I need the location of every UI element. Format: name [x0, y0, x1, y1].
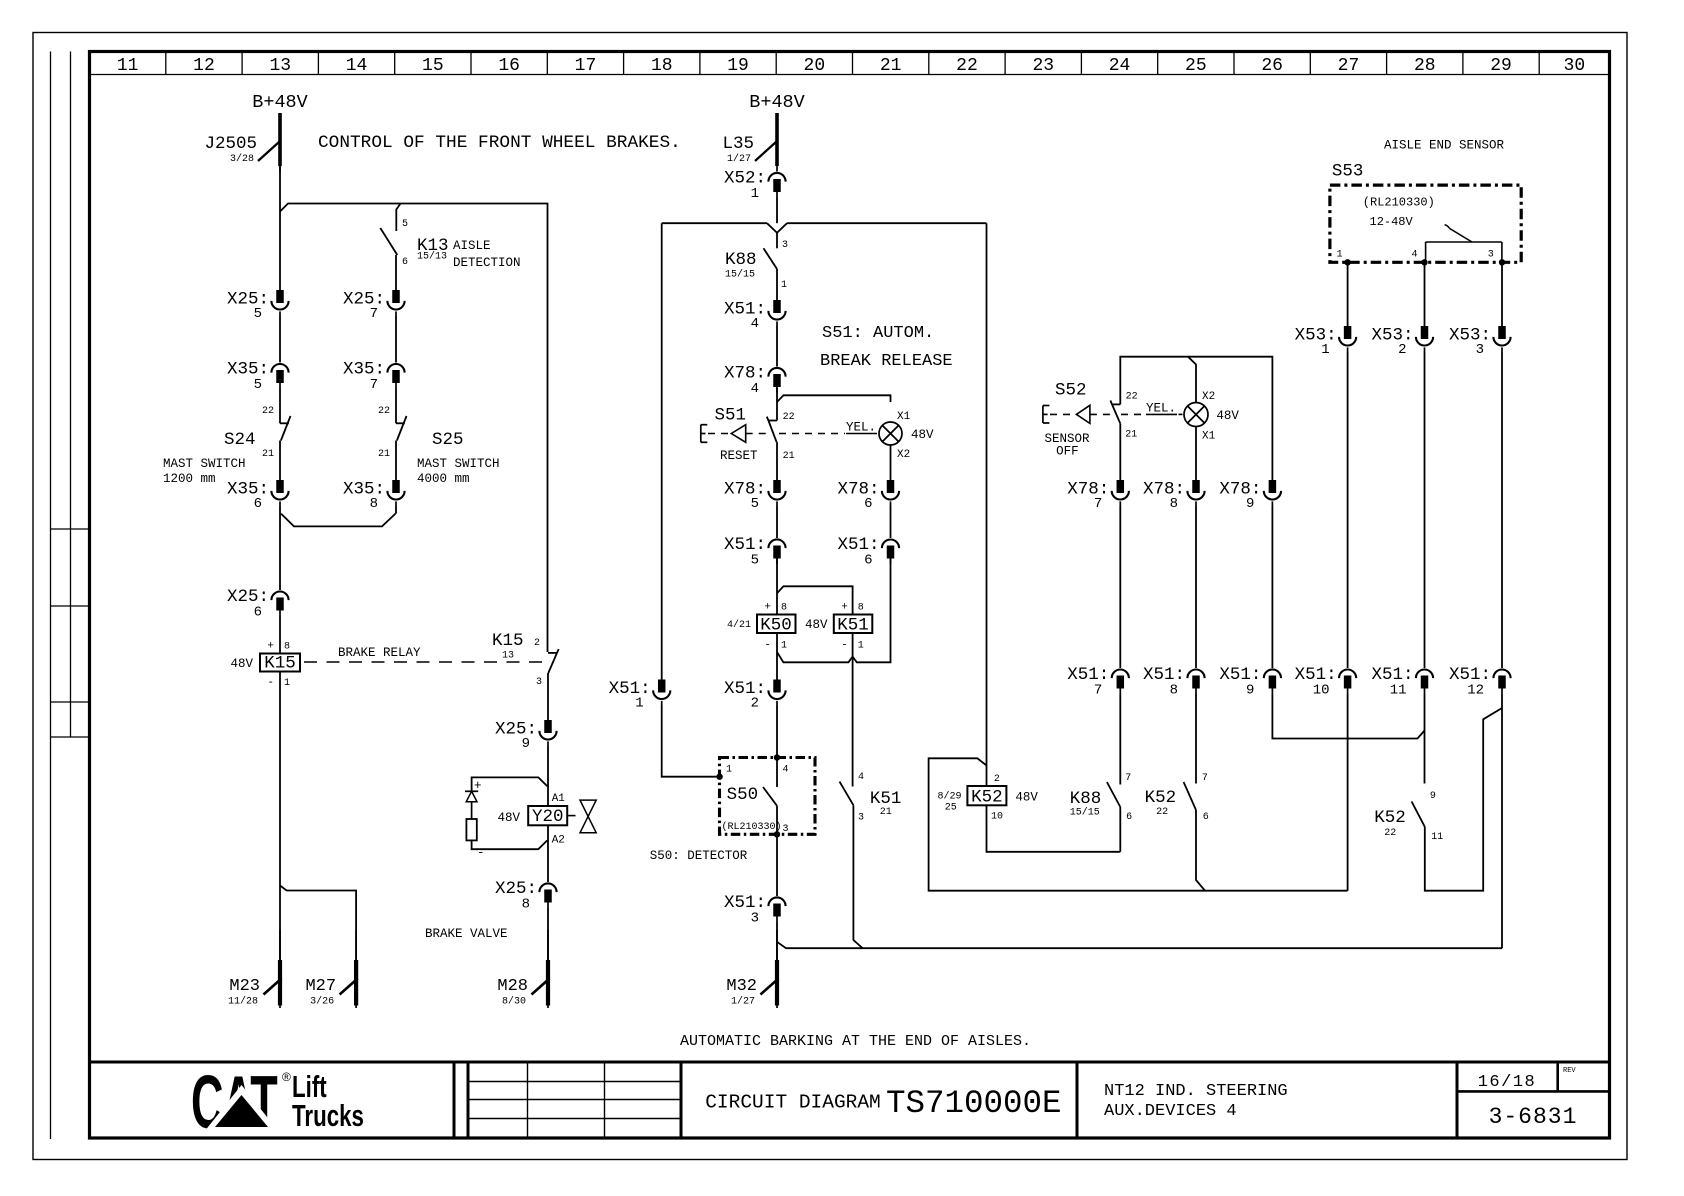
wire	[395, 255, 397, 290]
svg-text:X53:: X53:	[1449, 326, 1491, 346]
wire	[279, 441, 281, 481]
wire	[1424, 262, 1426, 326]
wire	[395, 441, 397, 481]
wire	[279, 506, 281, 590]
svg-text:1: 1	[1337, 250, 1343, 261]
svg-text:11: 11	[1431, 832, 1443, 843]
wire	[853, 805, 862, 948]
svg-text:4: 4	[751, 316, 759, 332]
wire	[890, 506, 892, 538]
svg-text:28: 28	[1414, 56, 1436, 76]
connector X25:9	[544, 720, 552, 733]
connector X78:8	[1192, 480, 1200, 493]
switch S51 reset (22-21)	[715, 406, 795, 464]
svg-text:14: 14	[346, 56, 368, 76]
wire	[279, 616, 281, 654]
connector X35:6	[276, 480, 284, 493]
wire	[776, 506, 778, 538]
svg-text:BREAK RELEASE: BREAK RELEASE	[820, 352, 953, 371]
svg-text:27: 27	[1338, 56, 1360, 76]
svg-text:1: 1	[726, 765, 732, 776]
svg-text:4: 4	[751, 381, 759, 397]
svg-text:22: 22	[1126, 392, 1138, 403]
svg-text:13: 13	[269, 56, 291, 76]
svg-text:29: 29	[1490, 56, 1512, 76]
wire	[1424, 694, 1426, 784]
svg-text:9: 9	[522, 736, 530, 752]
svg-text:X25:: X25:	[495, 720, 537, 740]
svg-text:X53:: X53:	[1295, 326, 1337, 346]
wire	[1347, 694, 1349, 891]
relay coil K50	[727, 602, 828, 652]
connector X25:6	[271, 591, 288, 600]
svg-text:K15: K15	[264, 654, 296, 674]
svg-text:X51:: X51:	[1219, 665, 1261, 685]
svg-text:NT12 IND. STEERING: NT12 IND. STEERING	[1104, 1082, 1288, 1101]
wire	[662, 222, 987, 224]
svg-text:48V: 48V	[230, 657, 253, 671]
svg-text:®: ®	[282, 1070, 291, 1084]
svg-text:6: 6	[864, 553, 872, 569]
svg-text:2: 2	[994, 774, 1000, 785]
svg-text:19: 19	[727, 56, 749, 76]
svg-text:X25:: X25:	[495, 879, 537, 899]
svg-text:B+48V: B+48V	[749, 92, 805, 113]
svg-text:6: 6	[254, 496, 262, 512]
svg-text:9: 9	[1430, 791, 1436, 802]
wire	[1195, 694, 1197, 784]
connector X78:9	[1269, 480, 1277, 493]
wire	[1501, 352, 1503, 668]
svg-text:K51: K51	[870, 789, 902, 809]
svg-text:X51:: X51:	[837, 535, 879, 555]
svg-text:S24: S24	[224, 430, 256, 450]
svg-text:AUTOMATIC BARKING AT THE END O: AUTOMATIC BARKING AT THE END OF AISLES.	[680, 1033, 1031, 1050]
svg-text:TS710000E: TS710000E	[886, 1085, 1062, 1122]
wire	[777, 586, 853, 614]
svg-text:(RL210330): (RL210330)	[1363, 196, 1435, 210]
svg-text:5: 5	[402, 219, 408, 230]
svg-text:8/29: 8/29	[938, 791, 962, 803]
svg-text:1: 1	[858, 641, 864, 652]
wire	[1272, 694, 1424, 739]
svg-text:1: 1	[781, 641, 787, 652]
svg-text:48V: 48V	[497, 811, 520, 825]
net incoming J2505 B+48V	[279, 113, 281, 172]
connector X51:10	[1339, 670, 1356, 679]
svg-text:21: 21	[783, 451, 795, 462]
wire	[776, 442, 778, 480]
wire	[777, 942, 1502, 948]
wire	[776, 233, 778, 249]
svg-text:A1: A1	[552, 793, 566, 805]
svg-text:8/30: 8/30	[502, 996, 526, 1008]
svg-text:M23: M23	[229, 977, 260, 996]
svg-text:1: 1	[284, 678, 290, 689]
wire	[1196, 810, 1205, 891]
svg-text:3: 3	[858, 813, 864, 824]
svg-text:3: 3	[783, 824, 789, 835]
wire	[279, 166, 281, 290]
connector X35:8	[392, 480, 400, 493]
wire	[929, 758, 1348, 890]
svg-text:11: 11	[1390, 683, 1407, 699]
svg-text:B+48V: B+48V	[252, 92, 308, 113]
relay contact K88 15/15 (1-3)	[725, 240, 788, 291]
svg-text:DETECTION: DETECTION	[453, 256, 521, 270]
relay contact K15 13	[492, 631, 559, 688]
svg-text:+: +	[267, 641, 274, 653]
connector X51:9	[1264, 669, 1281, 678]
relay coil K52 8/29 25	[938, 774, 1039, 823]
wire	[987, 805, 1121, 852]
wire	[1271, 506, 1273, 668]
svg-text:X78:: X78:	[1143, 480, 1185, 500]
svg-text:X52:: X52:	[724, 169, 766, 189]
diode and resistor parallel branch	[465, 777, 547, 860]
svg-text:8: 8	[284, 642, 290, 653]
svg-text:48V: 48V	[911, 428, 934, 442]
svg-text:3: 3	[1476, 342, 1484, 358]
svg-text:21: 21	[378, 449, 390, 460]
svg-text:K52: K52	[1145, 788, 1177, 808]
svg-text:5: 5	[254, 306, 262, 322]
svg-text:S52: S52	[1055, 381, 1087, 401]
lamp 48V (X1/X2) at S51	[879, 411, 934, 461]
svg-text:2: 2	[534, 638, 540, 649]
wire	[279, 389, 281, 424]
wire	[547, 908, 549, 960]
svg-text:3: 3	[751, 911, 759, 927]
svg-text:M27: M27	[305, 977, 336, 996]
svg-text:22: 22	[1156, 807, 1168, 818]
svg-text:M32: M32	[726, 977, 757, 996]
wire	[1119, 694, 1121, 785]
svg-text:6: 6	[402, 257, 408, 268]
svg-text:13: 13	[502, 651, 514, 662]
wire	[852, 633, 854, 657]
wire	[1195, 427, 1197, 481]
svg-text:X51:: X51:	[1067, 665, 1109, 685]
wire	[1347, 262, 1349, 326]
svg-text:48V: 48V	[805, 618, 828, 632]
wire	[777, 395, 891, 402]
svg-text:3: 3	[782, 240, 788, 251]
svg-text:X78:: X78:	[837, 480, 879, 500]
wire	[662, 706, 720, 777]
wire	[776, 558, 778, 615]
wire	[547, 746, 549, 806]
wire	[1501, 694, 1503, 948]
svg-text:12: 12	[193, 56, 215, 76]
wire	[1347, 352, 1349, 668]
svg-text:X35:: X35:	[343, 360, 385, 380]
connector X78:7	[1117, 480, 1125, 493]
connector X51:6	[882, 539, 899, 548]
wire	[776, 633, 778, 680]
wire	[776, 388, 778, 421]
svg-text:X35:: X35:	[227, 360, 269, 380]
relay contact K52 22 (7-6)	[1145, 773, 1209, 823]
svg-text:X1: X1	[897, 411, 911, 423]
svg-text:Y20: Y20	[532, 807, 564, 827]
mast switch S24 1200mm	[163, 406, 291, 486]
svg-text:22: 22	[783, 412, 795, 423]
svg-text:K52: K52	[1374, 808, 1406, 828]
svg-text:-: -	[764, 640, 771, 652]
wire	[776, 834, 778, 896]
svg-text:30: 30	[1564, 56, 1586, 76]
svg-text:RESET: RESET	[720, 449, 758, 463]
wire	[1424, 352, 1426, 668]
svg-text:22: 22	[956, 56, 978, 76]
svg-text:1200 mm: 1200 mm	[163, 472, 216, 486]
wire	[1119, 423, 1121, 480]
svg-text:9: 9	[1246, 683, 1254, 699]
wire	[1501, 262, 1503, 326]
connector X51:5	[768, 539, 785, 548]
svg-text:7: 7	[1125, 773, 1131, 784]
svg-text:J2505: J2505	[204, 134, 257, 154]
svg-text:7: 7	[1094, 496, 1102, 512]
svg-text:10: 10	[1313, 683, 1330, 699]
svg-text:MAST SWITCH: MAST SWITCH	[417, 457, 500, 471]
svg-text:4000 mm: 4000 mm	[417, 472, 470, 486]
connector X51:7	[1112, 669, 1129, 678]
svg-text:15/13: 15/13	[417, 251, 447, 263]
svg-text:25: 25	[1185, 56, 1207, 76]
svg-text:CONTROL OF THE FRONT WHEEL BRA: CONTROL OF THE FRONT WHEEL BRAKES.	[318, 133, 681, 153]
wire	[1425, 708, 1502, 891]
svg-text:23: 23	[1032, 56, 1054, 76]
svg-text:8: 8	[1170, 683, 1178, 699]
svg-text:X25:: X25:	[343, 290, 385, 310]
wire	[852, 657, 854, 787]
svg-text:11: 11	[117, 56, 139, 76]
svg-text:1/27: 1/27	[731, 996, 755, 1008]
svg-text:X51:: X51:	[609, 679, 651, 699]
svg-text:25: 25	[945, 803, 957, 814]
svg-text:20: 20	[804, 56, 826, 76]
svg-text:S51: AUTOM.: S51: AUTOM.	[822, 324, 934, 343]
svg-text:S25: S25	[432, 430, 464, 450]
wire	[986, 223, 988, 786]
wire	[776, 706, 778, 758]
connector X78:6	[887, 480, 895, 493]
wire	[1119, 807, 1121, 852]
relay coil K15 (brake relay)	[230, 641, 300, 690]
svg-text:4: 4	[1412, 250, 1418, 261]
svg-text:24: 24	[1109, 56, 1131, 76]
svg-text:X35:: X35:	[227, 480, 269, 500]
svg-text:X25:: X25:	[227, 587, 269, 607]
svg-text:X78:: X78:	[1067, 480, 1109, 500]
svg-text:REV: REV	[1563, 1067, 1576, 1075]
svg-text:10: 10	[991, 812, 1003, 823]
wire	[776, 326, 778, 367]
wire	[547, 825, 549, 882]
svg-text:4: 4	[783, 765, 789, 776]
connector X53:3	[1498, 326, 1506, 339]
connector X53:2	[1421, 326, 1429, 339]
svg-text:K88: K88	[725, 250, 757, 270]
connector X52:1	[768, 173, 785, 182]
svg-text:21: 21	[1125, 430, 1137, 441]
svg-text:15/15: 15/15	[1070, 807, 1100, 819]
svg-text:X1: X1	[1202, 431, 1216, 443]
svg-text:7: 7	[1094, 683, 1102, 699]
relay contact K51 21 (4-3)	[840, 772, 902, 824]
svg-text:AISLE: AISLE	[453, 239, 491, 253]
svg-text:X2: X2	[897, 449, 910, 461]
svg-text:11/28: 11/28	[228, 996, 258, 1008]
wire	[279, 672, 281, 961]
valve symbol	[567, 800, 596, 833]
svg-text:21: 21	[880, 56, 902, 76]
svg-text:5: 5	[254, 377, 262, 393]
svg-text:-: -	[841, 640, 848, 652]
svg-text:1: 1	[781, 280, 787, 291]
relay contact K52 22 (9-11)	[1374, 791, 1443, 843]
svg-text:2: 2	[1398, 342, 1406, 358]
svg-text:7: 7	[1202, 773, 1208, 784]
svg-text:AUX.DEVICES 4: AUX.DEVICES 4	[1104, 1102, 1237, 1121]
svg-text:X53:: X53:	[1371, 326, 1413, 346]
svg-text:X51:: X51:	[724, 535, 766, 555]
svg-text:6: 6	[254, 605, 262, 621]
svg-text:AISLE END SENSOR: AISLE END SENSOR	[1384, 139, 1505, 153]
connector X51:2	[773, 680, 781, 693]
svg-text:X51:: X51:	[724, 300, 766, 320]
connector X51:11	[1416, 670, 1433, 679]
svg-text:7: 7	[370, 306, 378, 322]
lamp 48V (X2/X1) at S52	[1184, 391, 1239, 443]
svg-text:M28: M28	[497, 977, 528, 996]
label: brake relay linkage	[304, 661, 546, 663]
svg-text:X78:: X78:	[724, 364, 766, 384]
wire	[395, 389, 397, 424]
svg-text:CIRCUIT DIAGRAM: CIRCUIT DIAGRAM	[705, 1092, 881, 1114]
svg-text:K15: K15	[492, 631, 524, 651]
svg-text:K51: K51	[837, 616, 869, 636]
svg-text:16: 16	[498, 56, 520, 76]
wire	[776, 269, 778, 300]
svg-text:22: 22	[262, 406, 274, 417]
svg-text:BRAKE RELAY: BRAKE RELAY	[338, 646, 421, 660]
svg-text:YEL.: YEL.	[846, 421, 876, 435]
svg-text:X51:: X51:	[724, 679, 766, 699]
reset actuator symbol	[701, 421, 880, 443]
svg-text:+: +	[764, 602, 771, 614]
svg-text:(RL210330): (RL210330)	[722, 821, 782, 833]
svg-text:22: 22	[1384, 828, 1396, 839]
svg-text:S51: S51	[715, 406, 747, 426]
svg-text:X51:: X51:	[724, 893, 766, 913]
svg-text:-: -	[477, 846, 485, 860]
svg-text:X35:: X35:	[343, 480, 385, 500]
relay coil K51	[834, 602, 873, 652]
svg-text:S50: S50	[727, 785, 759, 805]
connector X51:3	[768, 897, 785, 906]
svg-text:12-48V: 12-48V	[1370, 215, 1414, 229]
wire	[776, 198, 778, 224]
wire	[661, 223, 663, 679]
svg-text:6: 6	[864, 496, 872, 512]
svg-text:48V: 48V	[1216, 409, 1239, 423]
svg-text:18: 18	[651, 56, 673, 76]
svg-text:MAST SWITCH: MAST SWITCH	[163, 457, 246, 471]
connector X78:4	[768, 368, 785, 377]
svg-text:22: 22	[378, 406, 390, 417]
svg-text:-: -	[267, 677, 274, 689]
node: junction of L35 rail with feed bus	[767, 223, 787, 233]
connector X51:4	[773, 300, 781, 313]
svg-text:21: 21	[262, 449, 274, 460]
wire	[1119, 506, 1121, 668]
svg-text:X25:: X25:	[227, 290, 269, 310]
svg-text:3: 3	[1488, 250, 1494, 261]
svg-text:K88: K88	[1070, 789, 1102, 809]
svg-text:8: 8	[1170, 496, 1178, 512]
svg-text:S53: S53	[1332, 162, 1364, 182]
wire	[776, 922, 778, 960]
label S51 heading	[820, 324, 953, 371]
svg-text:26: 26	[1261, 56, 1283, 76]
svg-text:4: 4	[858, 772, 864, 783]
svg-text:4/21: 4/21	[727, 619, 751, 631]
svg-text:7: 7	[370, 377, 378, 393]
svg-text:6: 6	[1126, 812, 1132, 823]
CAT Lift Trucks logo	[191, 1061, 364, 1145]
svg-text:1: 1	[1321, 342, 1329, 358]
svg-text:8: 8	[370, 496, 378, 512]
svg-text:Trucks: Trucks	[292, 1098, 364, 1132]
connector X51:1	[658, 680, 666, 693]
wire	[1120, 357, 1272, 480]
svg-text:2: 2	[751, 696, 759, 712]
net outgoing M23	[279, 930, 281, 1008]
svg-text:X51:: X51:	[1143, 665, 1185, 685]
svg-text:5: 5	[751, 553, 759, 569]
svg-text:3: 3	[536, 677, 542, 688]
connector X25:8	[539, 883, 556, 892]
svg-text:X78:: X78:	[724, 480, 766, 500]
wire	[396, 204, 400, 232]
svg-text:3/26: 3/26	[310, 996, 334, 1008]
svg-text:8: 8	[858, 603, 864, 614]
svg-text:8: 8	[522, 897, 530, 913]
wire	[1195, 506, 1197, 668]
net outgoing M28	[547, 930, 549, 1008]
svg-text:16/18: 16/18	[1478, 1073, 1537, 1092]
wire	[280, 886, 356, 961]
connector X51:8	[1187, 670, 1204, 679]
wire	[547, 673, 549, 720]
sensor-off actuator symbol	[1043, 402, 1184, 424]
svg-text:17: 17	[575, 56, 597, 76]
svg-text:15/15: 15/15	[725, 269, 755, 281]
wire	[1188, 357, 1196, 403]
mast switch S25 4000mm	[378, 406, 500, 486]
svg-text:X78:: X78:	[1219, 480, 1261, 500]
net outgoing M27	[355, 930, 357, 1008]
svg-text:1: 1	[635, 696, 643, 712]
connector X35:7	[387, 364, 404, 373]
connector X51:12	[1493, 670, 1510, 679]
svg-text:15: 15	[422, 56, 444, 76]
svg-text:L35: L35	[722, 134, 754, 154]
aisle end sensor S53 (RL210330)	[1330, 162, 1521, 266]
